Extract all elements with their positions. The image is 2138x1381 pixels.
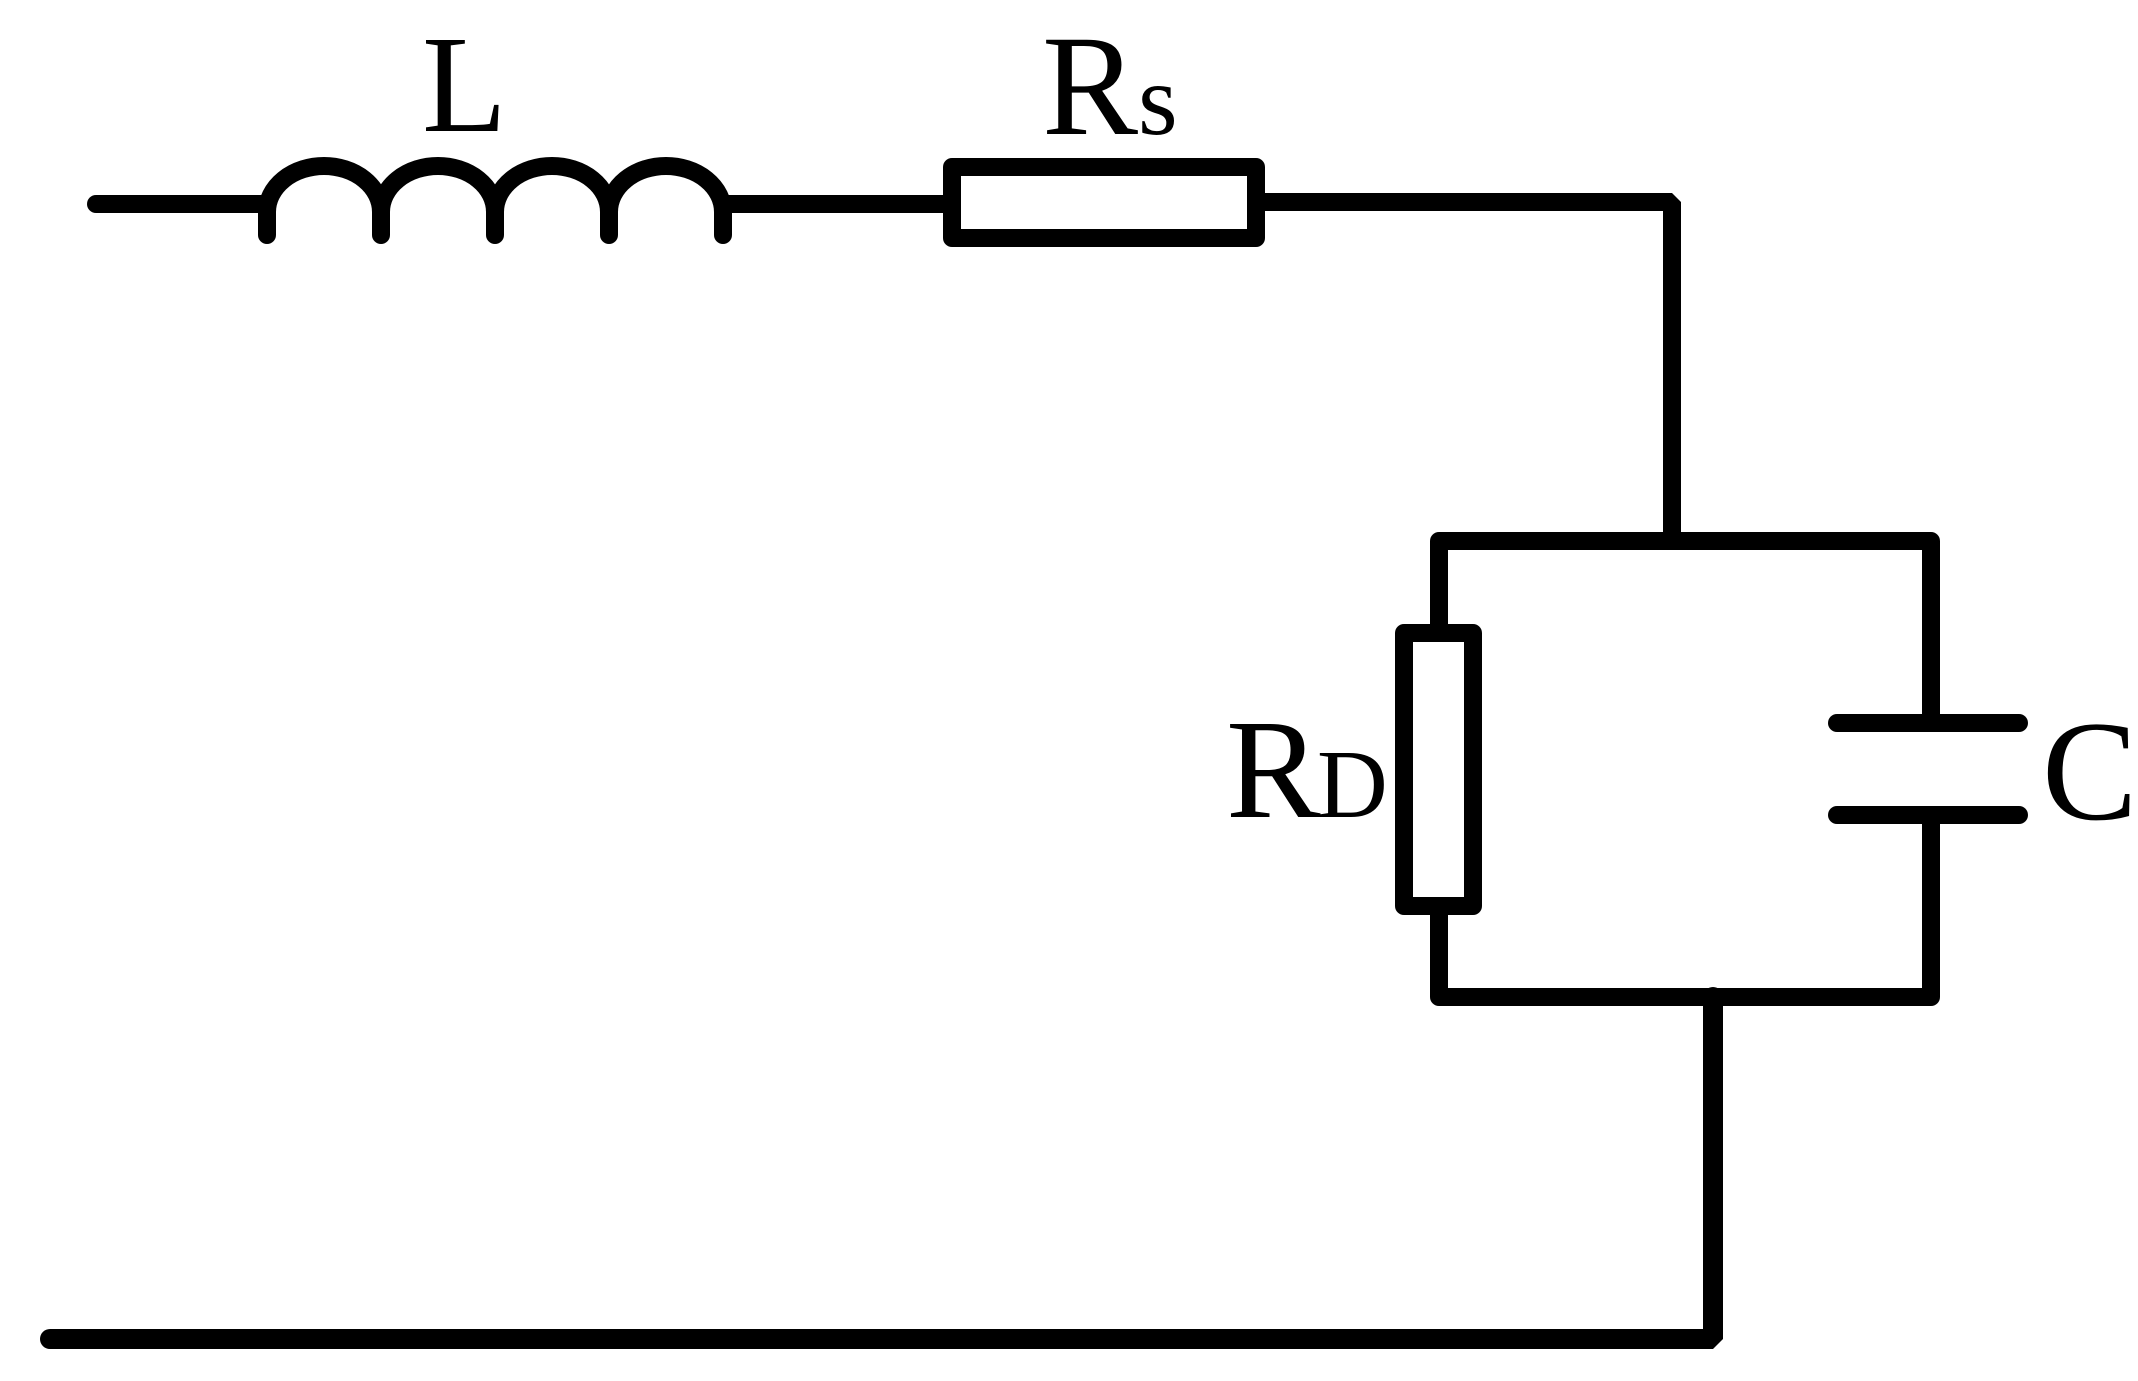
svg-text:R: R: [1042, 7, 1138, 166]
wire: RD bottom lead and parallel section bottom rail: [1439, 815, 1931, 997]
capacitor C bottom plate: [1837, 806, 2019, 824]
resistor RD (box): [1404, 633, 1473, 906]
wire: bottom stub down and return wire to left terminal: [50, 997, 1713, 1339]
resistor Rs (box): [952, 167, 1256, 238]
svg-text:L: L: [422, 8, 507, 162]
wire: inductor to resistor Rs: [723, 195, 943, 213]
wire: parallel section top rail: [1439, 541, 1931, 714]
svg-text:s: s: [1138, 44, 1178, 157]
wire: input terminal to inductor: [96, 195, 267, 213]
svg-text:D: D: [1317, 731, 1388, 839]
wire: Rs to top-right corner and down to parallel section: [1256, 202, 1672, 541]
svg-text:C: C: [2042, 692, 2137, 850]
capacitor C top plate: [1837, 714, 2019, 732]
inductor L (4 turns): [267, 166, 723, 235]
svg-text:R: R: [1226, 690, 1321, 848]
